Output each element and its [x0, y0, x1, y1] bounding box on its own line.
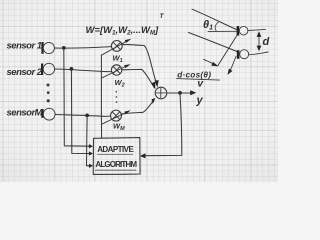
- weight arrow through W2: [101, 64, 130, 78]
- darker grid accents: [0, 0, 278, 182]
- incident wave ray 1: [192, 9, 237, 29]
- paper background: [0, 0, 278, 182]
- wire sensor1 to multiplier W1: [54, 47, 111, 48]
- wavefront line through sensor A: [218, 35, 237, 65]
- paper grain overlay: [0, 0, 278, 182]
- wire array sensor B: [249, 52, 269, 55]
- wire W2 to summer: [122, 69, 155, 87]
- underline ALGORITHM: [95, 169, 136, 171]
- wire W1 to summer: [122, 45, 157, 85]
- wire sensor2 to multiplier W2: [55, 69, 112, 72]
- ellipsis dots between sensor2 and sensorM: [47, 84, 50, 103]
- adaptive algorithm box: [93, 138, 140, 175]
- array sensor B symbol: [237, 50, 249, 59]
- weight arrow through W1: [101, 39, 131, 56]
- incident wave ray 2: [189, 33, 238, 52]
- wire array sensor A: [248, 29, 266, 30]
- wire WM to summer: [122, 100, 155, 114]
- tap wire 1 into box: [64, 50, 89, 146]
- wire sensorM to multiplier WM: [55, 115, 111, 117]
- array sensor A symbol: [237, 26, 248, 36]
- spacing dimension d double arrow: [257, 31, 262, 51]
- delay annotation arrow right: [227, 57, 236, 75]
- multiplier W2: [111, 65, 121, 75]
- angle reference line: [208, 30, 237, 32]
- arrowhead W2 into summer: [151, 82, 155, 90]
- node sensor2 tap: [70, 67, 74, 71]
- feedback arrowhead into box: [140, 153, 146, 158]
- sensor 1 microphone symbol: [41, 42, 54, 54]
- summer: [155, 87, 167, 99]
- tap wire 2 into box: [71, 71, 88, 154]
- node sensor1 tap: [62, 46, 66, 50]
- angle arc theta1: [215, 22, 218, 31]
- node output tap: [178, 91, 182, 95]
- delay annotation arrow left: [204, 59, 219, 66]
- node sensorM tap: [85, 114, 89, 118]
- weight bus from adaptive algorithm box: [100, 55, 102, 138]
- multiplier WM: [111, 110, 122, 121]
- arrowhead WM into summer: [152, 98, 156, 104]
- sensor 2 microphone symbol: [41, 63, 55, 75]
- weight arrow through WM: [101, 110, 130, 124]
- ellipsis dots between W2 and WM: [115, 91, 117, 103]
- tap wire M into box: [87, 117, 90, 166]
- underline ADAPTIVE: [97, 153, 133, 155]
- multiplier W1: [111, 41, 122, 52]
- output wire y: [167, 92, 191, 94]
- output arrowhead: [190, 90, 196, 95]
- sensor M microphone symbol: [41, 108, 55, 120]
- fraction bar of d cos(theta)/v: [177, 79, 220, 81]
- feedback wire down and left to box: [145, 94, 182, 156]
- arrowhead W1 into summer: [155, 80, 159, 88]
